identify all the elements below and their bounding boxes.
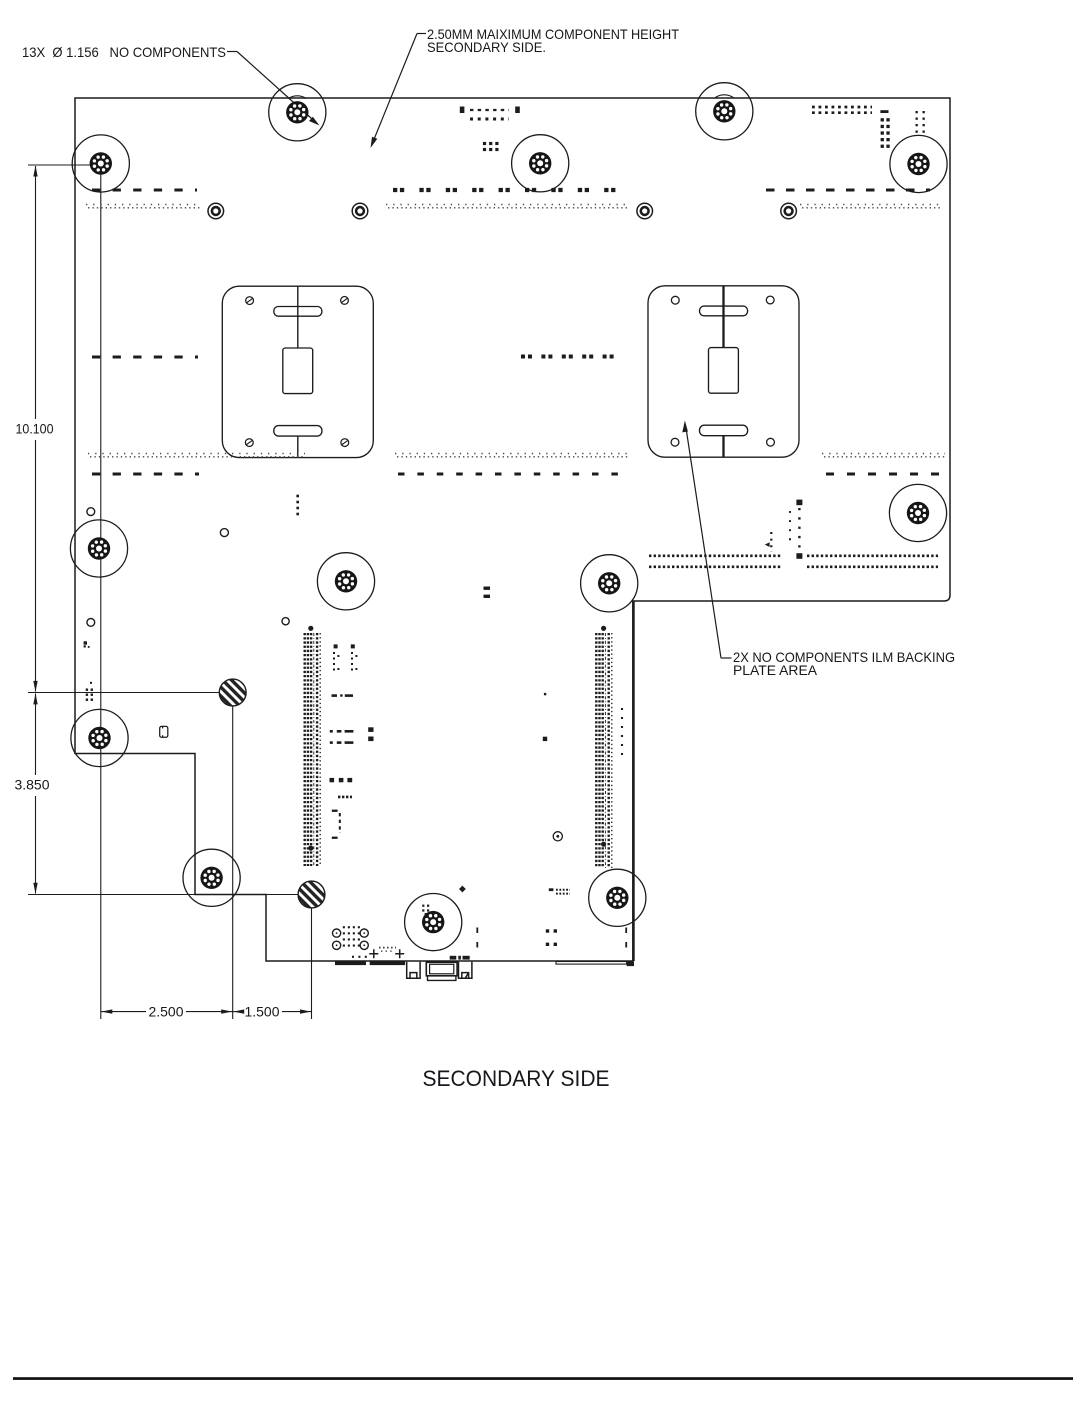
pad row R-474-left <box>92 473 199 476</box>
pad cluster top-center <box>460 107 465 114</box>
pad row R-474-mid <box>398 473 630 476</box>
dense pad rows y=556 x=649-781 <box>649 554 781 557</box>
extension line from hole column x=101 <box>100 164 102 1019</box>
dashed vertical x=626 <box>625 928 627 949</box>
fine pad texture T-455-mid <box>395 453 628 455</box>
strip top mark right <box>601 626 606 631</box>
black tabs y=957 x=450 <box>450 956 457 960</box>
square x=545 y=739 <box>543 737 547 741</box>
dimension extension line low (y=894.5) <box>28 894 312 896</box>
tooling hole hatched T1 <box>219 679 246 706</box>
dashed vertical x=477 <box>476 928 478 949</box>
strip mid mark left <box>308 846 313 851</box>
mounting hole H4 <box>696 83 753 140</box>
leader line for height callout <box>417 33 426 35</box>
mounting hole H3 <box>512 135 569 192</box>
fine pad texture T-top-mid <box>386 204 628 206</box>
plate P1 screw hole 1 <box>246 297 254 305</box>
twin bars x=484 y=588 <box>484 587 491 590</box>
dots above hole H12 <box>422 905 424 907</box>
arrowhead of ILM leader <box>682 421 688 433</box>
cluster right of left strip: top squares <box>334 644 338 648</box>
fine pad texture T-top-left <box>86 204 201 206</box>
dark corner notch x=627 <box>627 962 634 967</box>
dimension line 10.100 <box>35 166 37 419</box>
dimension extension line top (y=165) <box>28 164 101 166</box>
tiny pad cluster left A <box>84 641 87 644</box>
black diamond x=462 y=889 <box>459 886 466 893</box>
connector strip DIMM-left <box>304 633 306 866</box>
dot x=545 y=694 <box>544 693 546 695</box>
fine pad texture T-455-left <box>88 453 305 455</box>
extension line from tooling hole x=232.7 <box>232 693 234 1020</box>
dashed bracket y=810-838 <box>332 810 338 812</box>
PCB board outline <box>75 98 950 961</box>
bottom border rule <box>13 1377 1073 1380</box>
svg-text:13X Ø 1.156 NO COMPONENTS: 13X Ø 1.156 NO COMPONENTS <box>22 44 226 60</box>
dotted arc between plus marks <box>379 947 396 949</box>
cluster right of left strip: wavy columns <box>333 652 335 674</box>
pad grid 3x2 top-center <box>483 142 486 145</box>
bottom-left pad grid <box>343 926 345 928</box>
mounting hole H5 <box>890 135 947 192</box>
sparse dots column top-right <box>916 111 918 113</box>
dotted column x=790 <box>789 511 791 541</box>
arrowhead of height leader <box>371 137 378 148</box>
dot row y=797 <box>338 796 352 799</box>
mounting hole H13 <box>589 869 646 926</box>
small circle C4 <box>282 618 289 625</box>
ILM backing plate P1 <box>222 286 373 457</box>
svg-text:1.500: 1.500 <box>245 1004 280 1020</box>
mounting hole H8 <box>317 553 374 610</box>
via ring at x=360 y=211 <box>352 203 368 219</box>
VGA connector left tab <box>407 962 420 978</box>
2x2 squares x=546-557 y=930-946 <box>546 929 549 932</box>
strip top mark left <box>308 626 313 631</box>
svg-text:10.100: 10.100 <box>16 421 54 437</box>
dash rows y=731/742 <box>330 730 333 733</box>
via ring at x=789 y=211 <box>781 203 797 219</box>
bottom edge black bar 2 <box>370 962 405 966</box>
plate P1 screw hole 3 <box>245 439 253 447</box>
plus mark 2 <box>395 949 404 958</box>
plate P1 centerline bottom <box>297 436 299 458</box>
mounting hole H7 <box>70 520 127 577</box>
mounting hole H12 <box>405 894 462 951</box>
drill arc hole H2 <box>288 96 306 99</box>
plate P2 centerline bottom <box>722 436 724 458</box>
svg-text:PLATE AREA: PLATE AREA <box>733 662 818 678</box>
connector strip DIMM-right <box>595 633 597 868</box>
pad row R-top-right <box>766 189 930 192</box>
pad row R-mid-mid <box>521 355 623 359</box>
leader line for 13X callout <box>227 51 237 53</box>
mounting hole H10 <box>71 709 128 766</box>
tiny pad cluster left B <box>90 682 92 684</box>
fine pad texture T-455-right <box>822 453 945 455</box>
drill arc hole H4 <box>715 95 733 98</box>
vertical dotted run x=800 <box>796 500 802 506</box>
plate P2 center cutout <box>709 348 739 394</box>
isolated squares x=370 <box>368 727 373 732</box>
dimension line 2.500 <box>101 1011 146 1013</box>
strip mid mark right <box>601 842 606 847</box>
pad row R-top-mid <box>393 188 623 192</box>
thick board edge segment x=633 <box>632 601 635 961</box>
mounting hole H9 <box>581 555 638 612</box>
svg-text:2.500: 2.500 <box>149 1004 184 1020</box>
square row y=780 <box>330 778 335 782</box>
cluster x=550-569 y=889 <box>549 888 554 891</box>
small ring x=558 y=836 <box>553 832 562 841</box>
plus mark 1 <box>369 949 378 958</box>
dimension line 1.500 <box>233 1011 242 1013</box>
plate P1 screw hole 4 <box>341 439 349 447</box>
small cluster x=771 y=532-551 <box>770 532 772 552</box>
via ring at x=645 y=211 <box>637 203 653 219</box>
dimension line 3.850 <box>35 694 37 776</box>
connector bar right of VGA <box>556 962 627 965</box>
pad row R-mid-left <box>92 356 198 359</box>
mounting hole H6 <box>889 484 946 541</box>
via ring at x=216 y=211 <box>208 203 224 219</box>
plate P2 screw hole 1 <box>671 296 679 304</box>
plate P2 screw hole 2 <box>766 296 774 304</box>
plate P1 centerline top <box>297 286 299 348</box>
plate P1 center cutout <box>283 348 313 394</box>
dense pad rows y=556 x=807-938 <box>807 554 938 557</box>
plate P2 screw hole 4 <box>767 438 775 446</box>
extension line from tooling hole x=311.5 <box>311 895 313 1020</box>
plate P1 bottom slot <box>274 426 322 437</box>
mounting hole H1 <box>72 135 129 192</box>
pad cluster top-right rows <box>812 106 872 109</box>
plate P2 screw hole 3 <box>671 438 679 446</box>
small dots y=957 <box>352 956 370 958</box>
pad cluster top-right column pairs <box>880 110 888 113</box>
plate P2 bottom slot <box>700 425 748 436</box>
svg-text:3.850: 3.850 <box>15 777 50 793</box>
plate P2 top slot <box>700 306 748 316</box>
plate P2 centerline top <box>722 286 724 348</box>
VGA connector body <box>426 962 457 976</box>
bottom edge black bar 1 <box>335 962 366 966</box>
dash group y=696 <box>332 694 338 697</box>
fine pad texture T-top-right <box>800 204 940 206</box>
tooling hole hatched T2 <box>298 881 325 908</box>
arrowhead of 13X leader <box>309 117 320 126</box>
mounting hole H11 <box>183 849 240 906</box>
dimension extension line mid (y=692.5) <box>28 692 233 694</box>
VGA connector right tab <box>459 962 472 978</box>
mounting hole H2 <box>269 84 326 141</box>
dotted column right of right strip <box>621 708 623 757</box>
colon pad column x=298 <box>296 495 299 498</box>
plate P1 screw hole 2 <box>341 297 349 305</box>
small circle C2 <box>220 529 228 537</box>
pad row R-top-left <box>92 189 197 192</box>
bracket component outline <box>160 726 168 737</box>
bottom-left pad cluster rings <box>333 929 341 937</box>
ILM backing plate P2 <box>648 286 799 457</box>
small circle C3 <box>87 619 95 627</box>
leader line for ILM callout <box>721 657 732 659</box>
plate P1 top slot <box>274 307 322 317</box>
pad row R-474-right <box>826 473 945 476</box>
svg-text:SECONDARY SIDE: SECONDARY SIDE <box>423 1066 610 1091</box>
svg-text:SECONDARY SIDE.: SECONDARY SIDE. <box>427 39 546 55</box>
small circle C1 <box>87 508 95 516</box>
